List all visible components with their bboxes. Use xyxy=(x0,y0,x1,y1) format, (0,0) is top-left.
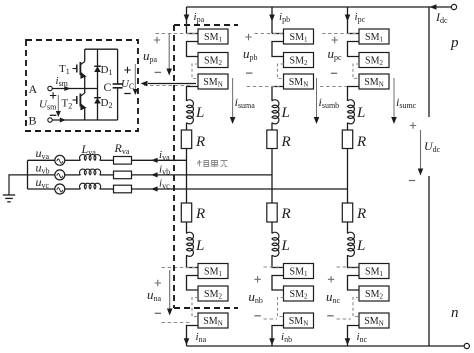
transistor T2 (IGBT) xyxy=(73,89,86,121)
wire: SMN exit to bottom rail b xyxy=(272,326,284,347)
svg-text:C: C xyxy=(104,80,112,94)
voltage U_dc plus sign xyxy=(410,122,416,128)
voltage u_pa plus sign xyxy=(154,37,160,43)
wire: bottom DC rail n xyxy=(187,345,430,347)
svg-text:R: R xyxy=(356,134,366,150)
wire: bottom rail to negative terminal xyxy=(429,345,464,347)
current arrow I_dc xyxy=(430,4,437,10)
wire: SMN exit to bottom rail c xyxy=(348,326,360,347)
wire: right DC bus lower segment xyxy=(428,176,430,346)
submodule SM2 upper arm phase c xyxy=(359,53,389,68)
wire: inductor to resistor a xyxy=(100,159,114,161)
wire: SM1-SM2 link upper b xyxy=(272,42,284,57)
resistor R lower arm phase b xyxy=(267,203,277,222)
wire: resistor to phase leg b xyxy=(132,174,273,176)
current arrow i_sumb xyxy=(316,78,318,117)
svg-text:R: R xyxy=(281,206,291,222)
node A terminal circle xyxy=(48,86,52,90)
dashed measure line u_nb top xyxy=(264,266,284,268)
wire: lower resistor to lower inductor c xyxy=(347,222,349,234)
submodule SMN lower arm phase c xyxy=(359,313,389,328)
svg-text:p: p xyxy=(450,35,459,51)
wire: lower inductor to SM1 lower c xyxy=(348,255,360,267)
svg-text:L: L xyxy=(356,238,365,254)
voltage u_na plus sign xyxy=(155,280,161,286)
current arrow i_pb xyxy=(269,15,275,22)
node n terminal circle (bottom right) xyxy=(464,343,469,348)
dashed measure line u_pb bottom xyxy=(247,86,280,88)
submodule SM2 lower arm phase c xyxy=(359,286,389,301)
wire: inductor to resistor b xyxy=(100,174,114,176)
wire: SM2-SMN dashed continuation upper c xyxy=(353,64,359,79)
voltage U_sm arrow xyxy=(57,95,59,111)
wire: upper resistor to AC junction and down to lower resistor c xyxy=(347,149,349,204)
voltage U_C plus sign xyxy=(124,67,130,73)
wire: SM1-SM2 link upper a xyxy=(187,42,199,57)
current arrow i_nb xyxy=(269,338,275,345)
svg-text:L: L xyxy=(356,105,365,121)
svg-text:L: L xyxy=(281,238,290,254)
voltage u_pb minus sign xyxy=(246,72,252,74)
wire: AC line left bus to source b xyxy=(28,174,55,176)
wire: inductor to resistor upper a xyxy=(186,123,188,130)
wire: AC line left bus to source c xyxy=(28,188,55,190)
current arrow i_nc xyxy=(345,338,351,345)
wire: SMN exit to arm inductor b xyxy=(272,87,284,102)
submodule SM1 upper arm phase c xyxy=(359,29,389,44)
wire: lower inductor to SM1 lower b xyxy=(272,255,284,267)
wire: SM2-SMN dashed continuation lower c xyxy=(353,298,359,317)
voltage u_pc plus sign xyxy=(332,37,338,43)
voltage U_C arrow xyxy=(134,64,136,89)
wire: stub into SM1 upper a xyxy=(187,33,199,35)
voltage u_pb plus sign xyxy=(245,34,251,40)
submodule SM1 lower arm phase b xyxy=(284,264,314,279)
wire: source to inductor b xyxy=(65,174,81,176)
wire: lower resistor to lower inductor b xyxy=(271,222,273,234)
submodule SMN upper arm phase a xyxy=(198,74,228,89)
voltage u_na arrow xyxy=(169,270,171,309)
wire: phase b upper leg from top rail xyxy=(271,7,273,34)
wire: stub into SM1 upper c xyxy=(348,33,360,35)
phase unit dashed box bottom edge xyxy=(174,307,238,309)
wire: SM2-SMN dashed continuation upper a xyxy=(192,64,198,79)
wire: top rail of half-bridge xyxy=(85,48,118,50)
AC source u_vb xyxy=(55,170,65,180)
submodule SMN lower arm phase b xyxy=(284,313,314,328)
svg-text:B: B xyxy=(29,114,37,128)
wire: resistor to phase leg c xyxy=(132,188,348,190)
svg-text:L: L xyxy=(195,105,204,121)
wire: upper resistor to AC junction and down to lower resistor a xyxy=(186,149,188,204)
resistor R lower arm phase a xyxy=(181,203,191,222)
wire: source to inductor c xyxy=(65,188,81,190)
voltage U_dc minus sign xyxy=(409,180,415,182)
current arrow i_pc xyxy=(345,15,351,22)
wire: SM2-SMN dashed continuation lower a xyxy=(192,298,198,317)
resistor R upper arm phase a xyxy=(181,130,191,149)
link arrow from SM_N to detail box xyxy=(148,83,196,85)
label 相单元 (phase unit, hand-drawn glyphs) xyxy=(198,160,228,167)
svg-text:R: R xyxy=(195,206,205,222)
dashed measure line u_nc bottom xyxy=(337,318,352,320)
current arrow on B rail xyxy=(60,118,66,123)
wire: inductor to resistor upper c xyxy=(347,123,349,130)
wire: lower resistor to lower inductor a xyxy=(186,222,188,234)
voltage u_pc minus sign xyxy=(331,72,337,74)
svg-text:A: A xyxy=(29,82,38,96)
dashed measure line u_pb top xyxy=(255,33,284,35)
wire: node A to midpoint xyxy=(52,88,97,90)
submodule SMN upper arm phase c xyxy=(359,74,389,89)
voltage u_nb minus sign xyxy=(254,315,260,317)
dashed measure line u_pa bottom xyxy=(144,85,193,87)
inductor L lower arm phase c xyxy=(348,232,355,256)
submodule detail dashed box xyxy=(26,40,138,131)
svg-text:L: L xyxy=(195,238,204,254)
voltage u_pa arrow xyxy=(168,34,170,69)
svg-text:R: R xyxy=(281,134,291,150)
node p terminal circle (top right) xyxy=(451,4,456,9)
submodule SM2 upper arm phase b xyxy=(284,53,314,68)
wire: phase a upper leg from top rail xyxy=(186,7,188,34)
inductor L_va xyxy=(79,154,100,160)
current arrow i_sumc xyxy=(393,78,395,117)
wire: top rail to positive terminal xyxy=(429,6,452,8)
transistor T1 (IGBT) xyxy=(73,49,86,88)
wire: SM1-SM2 link upper c xyxy=(348,42,360,57)
wire: SMN exit to arm inductor a xyxy=(187,87,199,102)
resistor R lower arm phase c xyxy=(342,203,352,222)
voltage U_sm plus sign xyxy=(50,92,56,98)
submodule SM1 upper arm phase a xyxy=(198,29,228,44)
wire: SMN exit to bottom rail a xyxy=(187,326,199,347)
AC source u_va xyxy=(55,155,65,165)
phase unit dashed box left edge xyxy=(173,25,175,308)
dashed measure line u_pa top xyxy=(156,33,198,35)
current arrow i_suma xyxy=(232,78,234,117)
voltage u_nc minus sign xyxy=(327,315,333,317)
wire: lower inductor to SM1 lower a xyxy=(187,255,199,267)
wire: stub into SM1 upper b xyxy=(272,33,284,35)
wire: SMN exit to arm inductor c xyxy=(348,87,360,102)
diode D2 xyxy=(97,89,99,121)
wire: SM1-SM2 link lower b xyxy=(272,276,284,291)
submodule SMN upper arm phase b xyxy=(284,74,314,89)
voltage u_nc plus sign xyxy=(328,276,334,282)
voltage u_na minus sign xyxy=(155,312,161,314)
wire: inductor to resistor c xyxy=(100,188,114,190)
wire: right DC bus upper segment xyxy=(428,7,430,117)
dashed measure line u_pc bottom xyxy=(320,86,347,88)
dashed measure line u_pc top xyxy=(322,33,358,35)
dashed measure line u_na bottom xyxy=(162,322,191,324)
submodule SM1 upper arm phase b xyxy=(284,29,314,44)
wire: top DC rail p xyxy=(187,6,430,8)
svg-text:R: R xyxy=(356,206,366,222)
submodule SM2 lower arm phase a xyxy=(198,286,228,301)
wire: phase c upper leg from top rail xyxy=(347,7,349,34)
resistor R_vc xyxy=(114,185,132,193)
resistor R upper arm phase b xyxy=(267,130,277,149)
voltage U_sm minus sign xyxy=(50,114,56,116)
node B terminal circle xyxy=(48,118,52,122)
wire: node B rail xyxy=(52,119,117,121)
voltage u_nb plus sign xyxy=(254,276,260,282)
inductor L lower arm phase b xyxy=(272,232,279,256)
wire: ground branch xyxy=(9,175,28,195)
ground symbol xyxy=(3,194,15,196)
current arrow i_va xyxy=(151,158,158,163)
inductor L_vc xyxy=(79,183,100,189)
voltage u_pa minus sign xyxy=(155,71,161,73)
wire: source to inductor a xyxy=(65,159,81,161)
submodule SM2 lower arm phase b xyxy=(284,286,314,301)
current arrow i_sm xyxy=(64,86,70,91)
resistor R upper arm phase c xyxy=(342,130,352,149)
svg-text:R: R xyxy=(195,134,205,150)
wire: upper resistor to AC junction and down to lower resistor b xyxy=(271,149,273,204)
AC source u_vc xyxy=(55,184,65,194)
dashed measure line u_na top xyxy=(162,267,198,269)
wire: SM1-SM2 link lower a xyxy=(187,276,199,291)
wire: SM2-SMN dashed continuation lower b xyxy=(278,298,284,317)
resistor R_vb xyxy=(114,171,132,179)
dashed measure line u_nc top xyxy=(337,266,359,268)
inductor L lower arm phase a xyxy=(187,232,194,256)
current arrow i_vb xyxy=(151,172,158,177)
current arrow i_vc xyxy=(151,186,158,191)
current arrow i_pa xyxy=(184,15,190,22)
diode D1 xyxy=(97,49,99,88)
wire: AC left bus vertical xyxy=(27,160,29,189)
resistor R_va xyxy=(114,157,132,165)
inductor L upper arm phase b xyxy=(272,100,279,124)
current arrow i_na xyxy=(184,338,190,345)
dashed measure line u_nb bottom xyxy=(264,318,278,320)
submodule SM2 upper arm phase a xyxy=(198,53,228,68)
svg-text:L: L xyxy=(281,105,290,121)
submodule SMN lower arm phase a xyxy=(198,313,228,328)
voltage U_C minus sign xyxy=(124,93,130,95)
inductor L upper arm phase c xyxy=(348,100,355,124)
wire: SM2-SMN dashed continuation upper b xyxy=(278,64,284,79)
wire: inductor to resistor upper b xyxy=(271,123,273,130)
wire: resistor to phase leg a xyxy=(132,159,187,161)
inductor L_vb xyxy=(79,169,100,175)
capacitor C xyxy=(117,49,119,84)
submodule SM1 lower arm phase c xyxy=(359,264,389,279)
voltage U_dc arrow xyxy=(420,130,422,169)
wire: AC line left bus to source a xyxy=(28,159,55,161)
svg-text:n: n xyxy=(451,305,459,321)
wire: SM1-SM2 link lower c xyxy=(348,276,360,291)
phase unit dashed box top edge xyxy=(174,24,238,26)
submodule SM1 lower arm phase a xyxy=(198,264,228,279)
inductor L upper arm phase a xyxy=(187,100,194,124)
